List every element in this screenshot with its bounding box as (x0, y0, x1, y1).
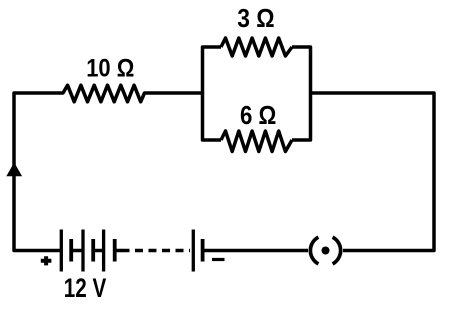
svg-text:10 Ω: 10 Ω (86, 54, 134, 82)
svg-text:6 Ω: 6 Ω (240, 100, 276, 130)
svg-text:12 V: 12 V (64, 273, 107, 303)
svg-text:3 Ω: 3 Ω (237, 3, 274, 33)
